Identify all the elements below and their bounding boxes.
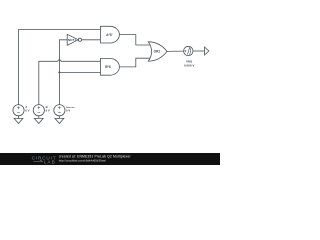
CircuitLab logo bolt bbox=[34, 160, 44, 162]
voltage source VB circle bbox=[33, 105, 44, 116]
wire source VSel to ground stem bbox=[58, 116, 60, 119]
wire source VA to ground stem bbox=[18, 116, 20, 119]
junction dot Selector/AND2 branch bbox=[58, 71, 60, 73]
svg-text:A*S': A*S' bbox=[106, 33, 113, 37]
svg-text:0.000 V: 0.000 V bbox=[184, 64, 194, 68]
wire net B continued to AND2 bbox=[61, 60, 101, 62]
or-gate OR1 body bbox=[148, 42, 167, 61]
voltmeter VM1 needle and arc bbox=[187, 47, 190, 55]
svg-text:0 V: 0 V bbox=[25, 109, 29, 113]
voltmeter VM1 circle bbox=[184, 46, 193, 55]
inverter NOT1 triangle bbox=[67, 34, 78, 45]
wire NOT output to AND1 input 2 bbox=[82, 39, 101, 41]
wire net Selector: source up to NOT input bbox=[59, 40, 67, 105]
wire Selector branch to AND2 input 2 bbox=[59, 71, 100, 73]
ground symbol under VSel bbox=[55, 118, 64, 123]
wire voltmeter to output flag bbox=[193, 50, 205, 52]
inverter NOT1 bubble bbox=[78, 38, 81, 41]
svg-text:OR1: OR1 bbox=[154, 50, 161, 54]
svg-text:0 V: 0 V bbox=[66, 109, 70, 113]
svg-text:http://circuitlab.com/c6dk4v85: http://circuitlab.com/c6dk4v85b39xw/ bbox=[59, 158, 106, 162]
svg-text:B*S: B*S bbox=[105, 65, 111, 69]
wire AND2 output to OR1 input 2 bbox=[119, 58, 151, 67]
output flag triangle bbox=[205, 47, 209, 55]
wire net A: source VA up and right to AND1 input 1 bbox=[19, 30, 101, 105]
plus/minus marks source VA bbox=[17, 106, 20, 112]
voltage source VSel circle bbox=[54, 105, 65, 116]
wire source VB to ground stem bbox=[38, 116, 40, 119]
voltmeter VM1 plus sign bbox=[184, 50, 186, 52]
plus/minus marks source VB bbox=[37, 106, 40, 112]
voltage source VA circle bbox=[13, 105, 24, 116]
wire AND1 output to OR1 input 1 bbox=[119, 35, 151, 45]
ground symbol under VA bbox=[14, 118, 23, 123]
svg-text:NOT1: NOT1 bbox=[68, 38, 76, 42]
plus/minus marks source VSel bbox=[58, 106, 61, 112]
wire net B: source VB up, right to AND2 input 1 (with hop over S) bbox=[39, 61, 58, 104]
svg-text:LAB: LAB bbox=[44, 159, 56, 164]
wire OR1 output to voltmeter bbox=[167, 50, 184, 52]
and-gate AND2 (B*S) body bbox=[100, 59, 119, 76]
and-gate AND1 (A*S') body bbox=[100, 26, 119, 43]
ground symbol under VB bbox=[34, 118, 43, 123]
wire hop over selector vertical bbox=[58, 60, 61, 61]
svg-text:0 V: 0 V bbox=[46, 109, 50, 113]
footer black bar bbox=[0, 153, 220, 165]
